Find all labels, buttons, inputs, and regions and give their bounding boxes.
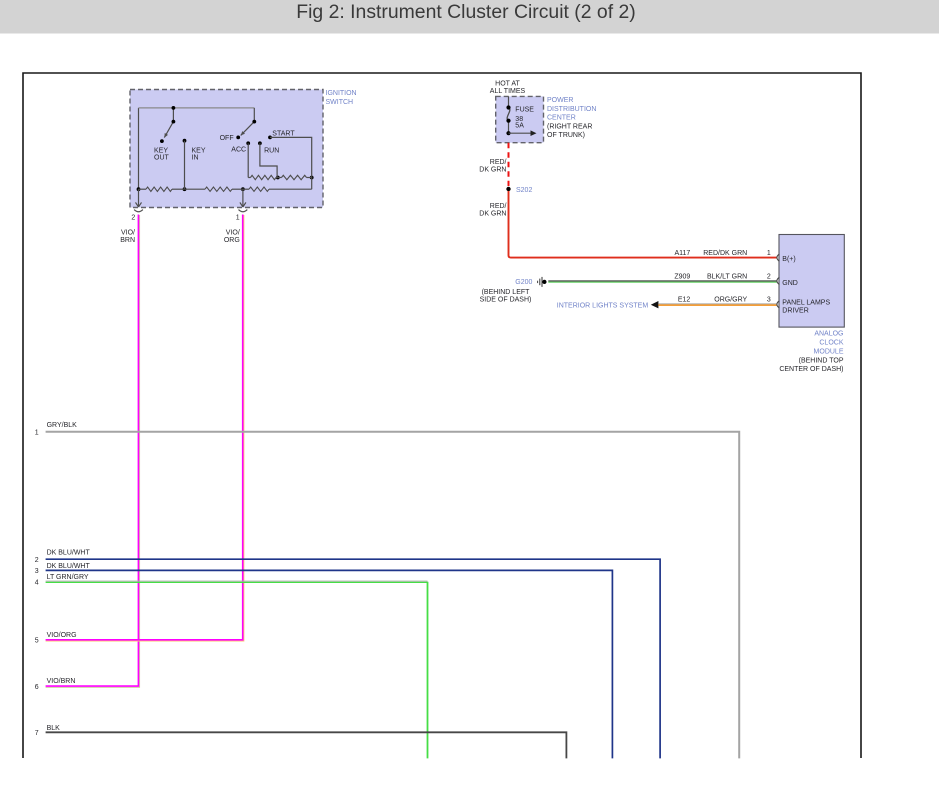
svg-text:RED/DK GRN: RED/DK GRN bbox=[703, 250, 747, 257]
svg-text:A117: A117 bbox=[674, 250, 690, 257]
svg-text:HOT AT: HOT AT bbox=[495, 80, 520, 87]
svg-text:IN: IN bbox=[192, 155, 199, 162]
svg-text:(BEHIND TOP: (BEHIND TOP bbox=[799, 357, 844, 364]
svg-text:LT GRN/GRY: LT GRN/GRY bbox=[47, 574, 89, 581]
svg-text:IGNITION: IGNITION bbox=[326, 90, 357, 97]
svg-text:BRN: BRN bbox=[120, 237, 135, 244]
svg-text:KEY: KEY bbox=[154, 147, 168, 154]
svg-text:2: 2 bbox=[35, 557, 39, 564]
svg-text:OFF: OFF bbox=[220, 135, 234, 142]
svg-text:VIO/ORG: VIO/ORG bbox=[47, 632, 77, 639]
svg-text:DK BLU/WHT: DK BLU/WHT bbox=[47, 550, 91, 557]
svg-text:Fig 2: Instrument Cluster Circ: Fig 2: Instrument Cluster Circuit (2 of … bbox=[296, 1, 635, 23]
svg-text:6: 6 bbox=[35, 684, 39, 691]
svg-text:1: 1 bbox=[35, 430, 39, 437]
svg-text:SWITCH: SWITCH bbox=[326, 99, 354, 106]
svg-text:5: 5 bbox=[35, 638, 39, 645]
svg-text:GRY/BLK: GRY/BLK bbox=[47, 422, 78, 429]
svg-text:5A: 5A bbox=[515, 123, 524, 130]
svg-text:VIO/: VIO/ bbox=[121, 229, 135, 236]
svg-text:1: 1 bbox=[767, 250, 771, 257]
svg-text:ANALOG: ANALOG bbox=[814, 331, 843, 338]
svg-text:CLOCK: CLOCK bbox=[819, 340, 843, 347]
svg-text:VIO/BRN: VIO/BRN bbox=[47, 678, 76, 685]
svg-text:ACC: ACC bbox=[231, 147, 246, 154]
svg-text:Z909: Z909 bbox=[674, 273, 690, 280]
svg-text:DISTRIBUTION: DISTRIBUTION bbox=[547, 106, 596, 113]
svg-text:G200: G200 bbox=[515, 279, 532, 286]
svg-text:ORG: ORG bbox=[224, 237, 240, 244]
svg-text:RED/: RED/ bbox=[490, 203, 507, 210]
svg-text:RUN: RUN bbox=[264, 147, 279, 154]
svg-text:INTERIOR LIGHTS SYSTEM: INTERIOR LIGHTS SYSTEM bbox=[557, 302, 649, 309]
svg-text:3: 3 bbox=[35, 568, 39, 575]
svg-text:DK GRN: DK GRN bbox=[479, 211, 506, 218]
svg-text:B(+): B(+) bbox=[782, 256, 795, 263]
svg-text:START: START bbox=[272, 130, 295, 137]
svg-text:FUSE: FUSE bbox=[515, 107, 534, 114]
svg-text:ORG/GRY: ORG/GRY bbox=[714, 297, 747, 304]
svg-text:MODULE: MODULE bbox=[814, 349, 844, 356]
svg-text:S202: S202 bbox=[516, 187, 532, 194]
svg-text:E12: E12 bbox=[678, 297, 691, 304]
svg-text:1: 1 bbox=[236, 215, 240, 222]
svg-text:2: 2 bbox=[767, 274, 771, 281]
svg-text:7: 7 bbox=[35, 730, 39, 737]
svg-text:OF TRUNK): OF TRUNK) bbox=[547, 132, 585, 139]
svg-text:PANEL LAMPS: PANEL LAMPS bbox=[782, 299, 830, 306]
svg-text:OUT: OUT bbox=[154, 155, 170, 162]
svg-text:VIO/: VIO/ bbox=[226, 229, 240, 236]
svg-text:(RIGHT REAR: (RIGHT REAR bbox=[547, 123, 592, 130]
svg-text:CENTER OF DASH): CENTER OF DASH) bbox=[779, 366, 843, 373]
svg-text:GND: GND bbox=[782, 280, 798, 287]
svg-text:DRIVER: DRIVER bbox=[782, 307, 808, 314]
svg-text:ALL TIMES: ALL TIMES bbox=[490, 88, 526, 95]
svg-text:DK BLU/WHT: DK BLU/WHT bbox=[47, 563, 91, 570]
svg-text:DK GRN: DK GRN bbox=[479, 167, 506, 174]
svg-text:2: 2 bbox=[131, 215, 135, 222]
svg-text:SIDE OF DASH): SIDE OF DASH) bbox=[480, 296, 532, 303]
svg-text:(BEHIND LEFT: (BEHIND LEFT bbox=[482, 289, 531, 296]
svg-text:4: 4 bbox=[35, 580, 39, 587]
svg-text:3: 3 bbox=[767, 297, 771, 304]
svg-text:RED/: RED/ bbox=[490, 159, 507, 166]
svg-text:KEY: KEY bbox=[192, 147, 206, 154]
svg-text:CENTER: CENTER bbox=[547, 115, 576, 122]
svg-text:POWER: POWER bbox=[547, 97, 573, 104]
svg-text:BLK/LT GRN: BLK/LT GRN bbox=[707, 273, 747, 280]
svg-text:BLK: BLK bbox=[47, 725, 61, 732]
